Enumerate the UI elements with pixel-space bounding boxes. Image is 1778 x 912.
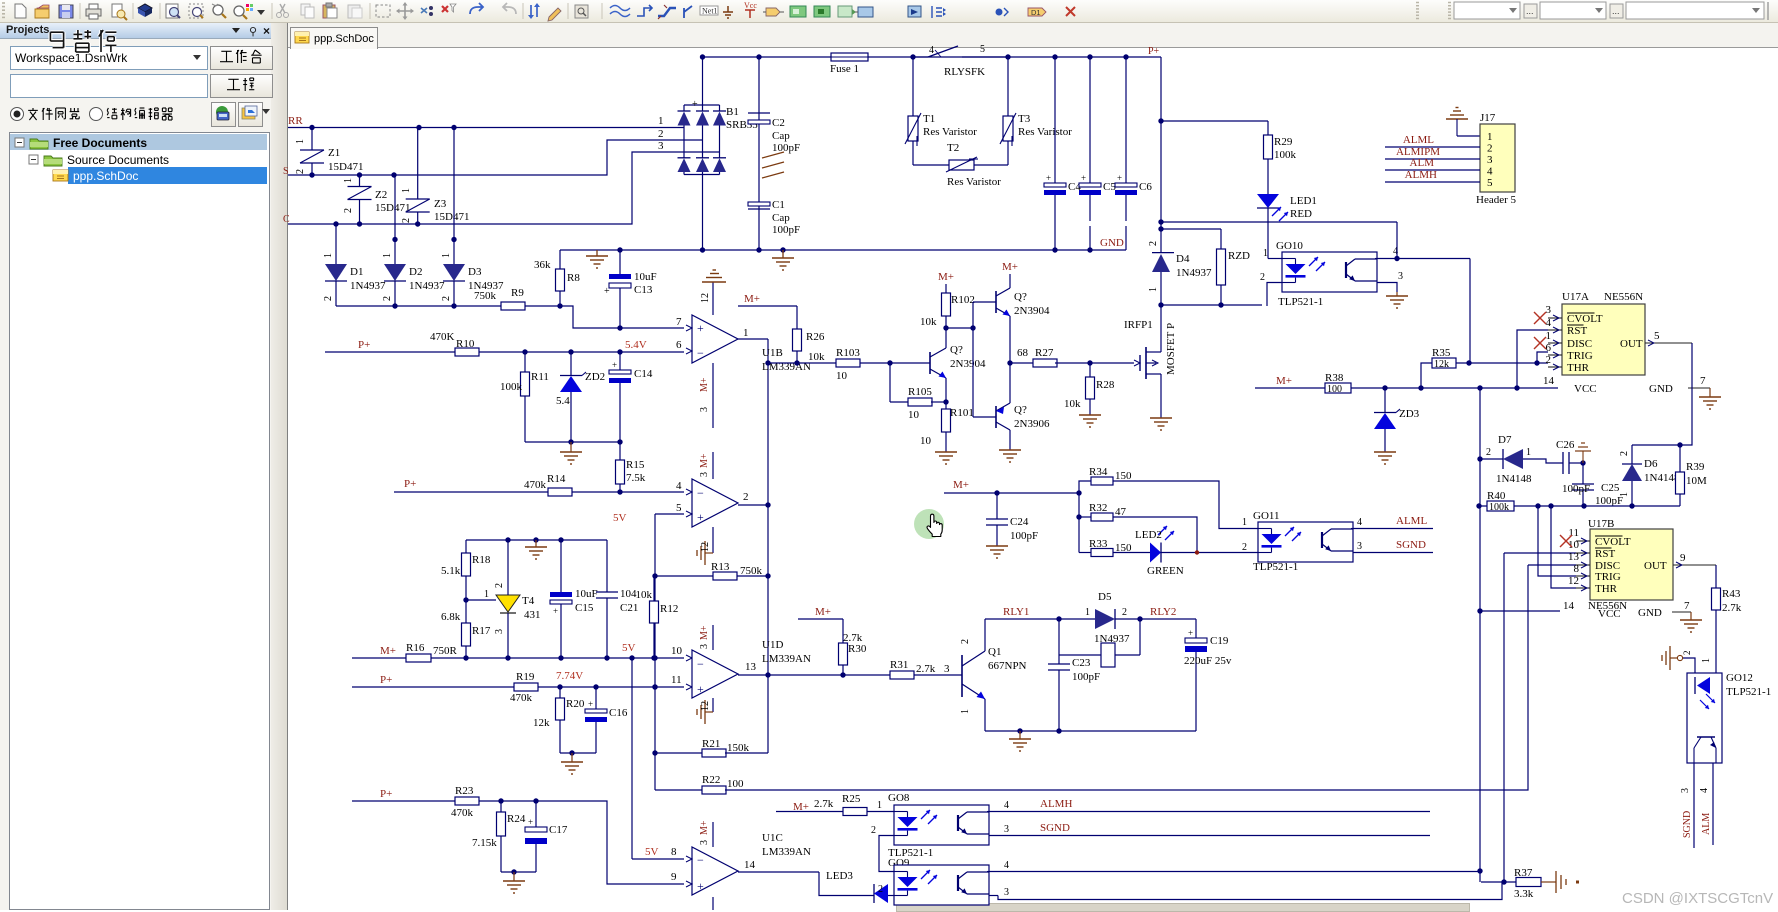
relay contact RLYSFK [913,56,928,58]
svg-text:100k: 100k [1274,149,1297,161]
junction [1005,54,1010,59]
svg-text:R13: R13 [711,561,730,573]
svg-text:GREEN: GREEN [1147,565,1184,577]
svg-text:6.8k: 6.8k [441,611,461,623]
junction [1056,728,1061,733]
svg-text:2N3904: 2N3904 [1014,305,1050,317]
svg-text:1: 1 [1526,447,1531,458]
wire D4 node to GO10 pin4 [1161,221,1397,223]
separator [159,3,161,19]
svg-text:T3: T3 [1018,113,1031,125]
ground below ZD3 [1374,451,1396,453]
junction [629,655,634,660]
svg-text:750k: 750k [474,290,497,302]
combo box 1 [1454,2,1520,19]
svg-text:D7: D7 [1498,434,1512,446]
svg-text:P+: P+ [380,674,392,686]
resistor R26 [796,306,798,329]
svg-text:47: 47 [1115,506,1127,518]
ground at R8 bus [596,250,598,256]
diode D5 [1095,609,1115,629]
svg-text:7.74V: 7.74V [556,670,583,682]
capacitor C25 [1582,463,1584,484]
svg-text:M+: M+ [699,820,710,835]
svg-text:R16: R16 [406,642,425,654]
junction [700,54,705,59]
separator [132,3,134,19]
svg-text:R9: R9 [511,287,524,299]
wire output row to R31 [768,674,890,676]
svg-text:12: 12 [700,293,711,303]
svg-text:2: 2 [1148,241,1159,246]
junction [652,684,657,689]
junction [1477,385,1482,390]
svg-text:2.7k: 2.7k [814,798,834,810]
svg-text:C2: C2 [772,117,785,129]
junction [1017,728,1022,733]
resistor R18 [465,540,467,553]
svg-text:NE556N: NE556N [1604,291,1643,303]
svg-text:4: 4 [1546,317,1552,329]
junction [1158,219,1163,224]
separator [522,3,524,19]
junction [1535,503,1540,508]
junction [652,573,657,578]
svg-text:MOSFET P: MOSFET P [1165,323,1177,375]
op-amp U1D LM339AN [692,650,738,698]
svg-text:Q1: Q1 [988,646,1001,658]
wire D7 to C26 [1523,459,1563,463]
svg-text:IRFP1: IRFP1 [1124,319,1153,331]
ground U17A pin7 [1709,388,1711,397]
wire R40 row [1479,505,1680,507]
junction [533,798,538,803]
icon redo grayed [503,3,516,14]
svg-text:10k: 10k [808,351,825,363]
GO9 pin3 wire bottom bus [989,895,998,897]
ground at J17 pin1 [1446,118,1468,120]
junction [568,439,573,444]
junction [1158,226,1163,231]
zener ZD2 [570,352,572,375]
svg-text:R26: R26 [806,331,825,343]
resistor R28 [1089,363,1091,377]
dropdown arrow [257,10,265,15]
svg-text:Res Varistor: Res Varistor [923,126,977,138]
junction [558,537,563,542]
svg-text:Cap: Cap [772,130,790,142]
icon device sheet [838,6,852,17]
res varistor T3 [974,164,1008,166]
resistor R31 [890,671,914,679]
svg-text:5V: 5V [645,846,659,858]
svg-text:1: 1 [382,253,393,258]
ground at C1 bus [782,250,784,258]
svg-text:R101: R101 [950,407,974,419]
svg-text:R27: R27 [1035,347,1054,359]
svg-text:431: 431 [524,609,541,621]
svg-text:3: 3 [494,629,505,634]
wire net L2 [288,140,703,175]
svg-text:R43: R43 [1722,588,1741,600]
svg-text:GO8: GO8 [888,792,910,804]
junction [1548,503,1553,508]
wire driver bases vertical [972,302,974,417]
junction [1382,385,1387,390]
icon bus entry [684,6,692,18]
GO8 pin3 wire SGND [989,835,1430,837]
optocoupler GO12 TLP521-1 vertical [1687,673,1722,763]
wire R10 to U1B pin6 [479,351,684,353]
svg-text:1: 1 [1487,131,1493,143]
U1D pin 12 gnd down [712,698,714,712]
resistor R14 [548,488,572,496]
svg-text:RR: RR [288,115,303,127]
resistor R101 [945,402,947,409]
svg-text:100: 100 [1327,384,1342,395]
toolbar grip [2,2,5,4]
svg-text:LED2: LED2 [1135,529,1162,541]
svg-text:2: 2 [441,296,452,301]
svg-text:−: − [697,657,704,671]
svg-text:VCC: VCC [1574,383,1597,395]
svg-text:12: 12 [700,701,711,711]
svg-text:9: 9 [1680,552,1686,564]
wire D7 row [1480,458,1503,460]
svg-text:M+: M+ [744,293,760,305]
svg-text:12k: 12k [533,717,550,729]
junction [910,54,915,59]
svg-text:4: 4 [1004,800,1009,811]
junction [593,684,598,689]
icon zoom colors [234,6,244,16]
svg-text:M+: M+ [953,479,969,491]
svg-text:2: 2 [1122,607,1127,618]
icon wires [610,6,630,17]
svg-text:ALML: ALML [1403,134,1434,146]
varistor Z1 [311,128,313,151]
icon gnd port [727,6,729,12]
svg-text:SGND: SGND [1040,822,1070,834]
wire M+ 5V rail [352,657,684,659]
U17B gnd pin 7 [1672,611,1691,613]
svg-text:ALMH: ALMH [1040,798,1072,810]
svg-text:D1: D1 [350,266,363,278]
svg-text:DISC: DISC [1567,338,1592,350]
junction [505,655,510,660]
svg-text:100: 100 [727,778,744,790]
svg-text:750k: 750k [740,565,763,577]
resistor R103 [836,359,860,367]
junction [604,655,609,660]
svg-text:T2: T2 [947,142,959,154]
svg-text:15D471: 15D471 [375,202,410,214]
svg-text:M+: M+ [699,453,710,468]
capacitor C15 [560,540,562,592]
resistor R38 boxed [1325,383,1351,393]
junction red [1195,550,1199,554]
svg-text:C13: C13 [634,284,653,296]
hand cursor [927,514,942,536]
U1A pin 4 [686,489,692,495]
junction [756,247,761,252]
svg-text:T4: T4 [522,595,535,607]
junction [533,537,538,542]
svg-text:CSDN @IXTSCGTcnV: CSDN @IXTSCGTcnV [1622,890,1773,907]
svg-text:RLYSFK: RLYSFK [944,66,985,78]
svg-text:TRIG: TRIG [1595,571,1621,583]
junction [617,325,622,330]
svg-text:470K: 470K [430,331,455,343]
svg-text:M+: M+ [815,606,831,618]
svg-text:+: + [1117,173,1122,183]
junction [1137,616,1142,621]
svg-text:667NPN: 667NPN [988,660,1027,672]
svg-text:R17: R17 [472,625,491,637]
resistor R20 [559,687,561,698]
junction [558,655,563,660]
svg-text:220uF 25v: 220uF 25v [1184,655,1232,667]
GO12 pin 4 wire ALM [1712,763,1714,845]
svg-text:6: 6 [1546,342,1552,354]
U1A pin 3 M+ up [712,452,714,479]
junction [887,360,892,365]
svg-text:U17B: U17B [1588,518,1614,530]
svg-text:750R: 750R [433,645,458,657]
icon print [86,9,101,16]
junction [505,537,510,542]
resistor R23 [455,797,479,805]
junction [463,597,468,602]
svg-text:R37: R37 [1514,867,1533,879]
junction [451,125,456,130]
wire LED2 to GO11 pin2 [1161,552,1258,554]
wire TRIG elbow [1537,352,1548,363]
svg-text:RST: RST [1595,548,1615,560]
icon sel arrows [421,8,427,13]
svg-text:100pF: 100pF [1562,483,1590,495]
svg-text:14: 14 [744,859,756,871]
svg-text:C25: C25 [1601,482,1620,494]
ground below mosfet [1150,417,1172,419]
svg-text:RLY1: RLY1 [1003,606,1029,618]
wire R25 to GO8 [867,811,894,813]
junction [700,247,705,252]
separator [271,3,273,19]
capacitor C21 [606,540,608,592]
svg-text:R14: R14 [547,473,566,485]
wire net L3 [288,152,720,224]
wire VCC U17B [1479,610,1560,612]
svg-text:4: 4 [1004,860,1009,871]
svg-text:ZD3: ZD3 [1399,408,1420,420]
svg-text:Vcc: Vcc [744,1,757,10]
junction [617,349,622,354]
transistor Q? 2N3904 first [929,352,931,374]
junction [780,247,785,252]
J17 pin 4 wire ALM [1385,169,1480,171]
svg-text:1: 1 [1242,517,1247,528]
resistor R27 [1010,362,1033,364]
svg-text:C16: C16 [609,707,628,719]
svg-text:15D471: 15D471 [434,211,469,223]
GO10 pin 3 wire and ground [1377,283,1397,293]
svg-text:+: + [697,321,704,335]
svg-text:4: 4 [1487,166,1493,178]
J17 pin 5 wire ALMH [1385,181,1480,183]
capacitor C24 [996,493,998,519]
svg-text:+: + [697,682,704,696]
svg-text:D5: D5 [1098,591,1112,603]
U1C pin 9 [686,881,692,887]
junction [1466,360,1471,365]
icon vcc port [749,10,751,18]
svg-text:M+: M+ [380,645,396,657]
no connect X DISC [1534,337,1546,349]
svg-text:10M: 10M [1686,475,1707,487]
svg-text:R32: R32 [1089,502,1107,514]
svg-text:5: 5 [1487,177,1493,189]
svg-text:4: 4 [929,45,934,56]
svg-text:+: + [612,360,617,370]
svg-text:P+: P+ [358,339,370,351]
U1C pin 8 [686,856,692,862]
resistor R11 [524,352,526,372]
junction [568,349,573,354]
U1C pin 3 M+ up [712,822,714,847]
icon select rect [376,5,390,17]
J17 pin 3 wire ALMIPM [1385,158,1480,160]
svg-text:10: 10 [836,370,848,382]
svg-text:1: 1 [877,800,882,811]
resistor R24 [500,801,502,812]
svg-text:1: 1 [401,188,412,193]
capacitor C4 [1054,57,1056,183]
svg-text:2.7k: 2.7k [1722,602,1742,614]
svg-text:LED3: LED3 [826,870,853,882]
svg-text:+: + [692,99,698,110]
op-amp U1A LM339AN [692,479,738,527]
junction [309,125,314,130]
wire out down to LED3 [819,872,874,896]
transistor Q? 2N3906 [973,416,996,418]
capacitor C2 [758,57,760,120]
resistor R32 [1079,516,1091,518]
svg-text:10uF: 10uF [634,271,657,283]
U1B pin 12 gnd up [712,282,714,315]
icon zoom area [189,4,203,18]
wire Q1 emitter bottom row [985,730,1196,732]
svg-text:10uF: 10uF [575,588,598,600]
junction [357,221,362,226]
svg-text:3: 3 [944,663,950,675]
resistor R30 [842,619,844,643]
transistor Q1 667NPN [961,655,963,697]
diode D7 [1503,449,1523,469]
svg-text:2N3906: 2N3906 [1014,418,1050,430]
svg-text:2: 2 [382,296,393,301]
diode D6 [1631,445,1633,464]
junction [652,684,657,689]
wire R32 to pin2 node [1113,517,1197,553]
U17B pin stubs [1576,540,1590,542]
svg-text:B1: B1 [726,106,739,118]
resistor R22 [655,789,702,791]
svg-text:15D471: 15D471 [328,161,363,173]
svg-text:J17: J17 [1480,112,1496,124]
svg-text:R103: R103 [836,347,860,359]
junction [1218,302,1223,307]
resistor R25 [843,808,867,816]
svg-text:LED1: LED1 [1290,195,1317,207]
GO10 pin 1 wire [1267,208,1269,259]
svg-text:Z3: Z3 [434,198,447,210]
LED LED2 GREEN [1113,552,1150,554]
svg-text:470k: 470k [524,479,547,491]
junction [1477,456,1482,461]
varistor Z3 [417,128,419,200]
wire DISC stub [1528,564,1576,566]
junction [1158,118,1163,123]
wire M+ row [944,492,1079,494]
resistor R8 [559,250,561,269]
icon D1 tag [1028,8,1046,16]
bridge rectifier B1 [684,104,720,106]
svg-text:150k: 150k [727,742,750,754]
wire R32 R33 vertical [1078,493,1080,553]
svg-text:3: 3 [1680,788,1691,793]
wire GND bus [560,249,1126,251]
svg-text:12: 12 [1568,575,1579,587]
junction [994,490,999,495]
wire R35 to THR/TRIG [1456,362,1548,364]
tl431 T4 [466,599,496,601]
svg-text:2: 2 [343,208,354,213]
junction [1123,54,1128,59]
resistor R15 [619,442,621,460]
icon red x [1066,7,1075,16]
svg-text:10: 10 [908,409,920,421]
junction [1076,514,1081,519]
svg-text:R29: R29 [1274,136,1293,148]
wire R20 C16 bottom [560,752,596,754]
svg-text:−: − [697,486,704,500]
svg-text:2: 2 [401,218,412,223]
icon cut grayed [280,4,285,13]
svg-text:R40: R40 [1487,490,1506,502]
resistor R29 [1161,120,1268,122]
U1A pin 5 [686,511,692,517]
svg-text:R31: R31 [890,659,908,671]
svg-text:7.15k: 7.15k [472,837,497,849]
svg-text:Res Varistor: Res Varistor [947,176,1001,188]
capacitor C6 [1125,57,1127,183]
ground below 2N3906 [999,449,1021,451]
svg-text:C6: C6 [1139,181,1152,193]
capacitor C23 [1058,619,1060,664]
U17A pin stubs [1548,317,1562,319]
svg-text:R22: R22 [702,774,720,786]
icon clear filter [442,6,448,12]
svg-text:R20: R20 [566,698,585,710]
wire U1B out vertical [767,339,769,753]
wire emitters vertical [1009,316,1011,400]
relay coil box [1059,654,1101,656]
svg-text:R18: R18 [472,554,491,566]
junction [1581,503,1586,508]
U1B pin 7 [686,325,692,331]
svg-text:ALM: ALM [1410,157,1435,169]
